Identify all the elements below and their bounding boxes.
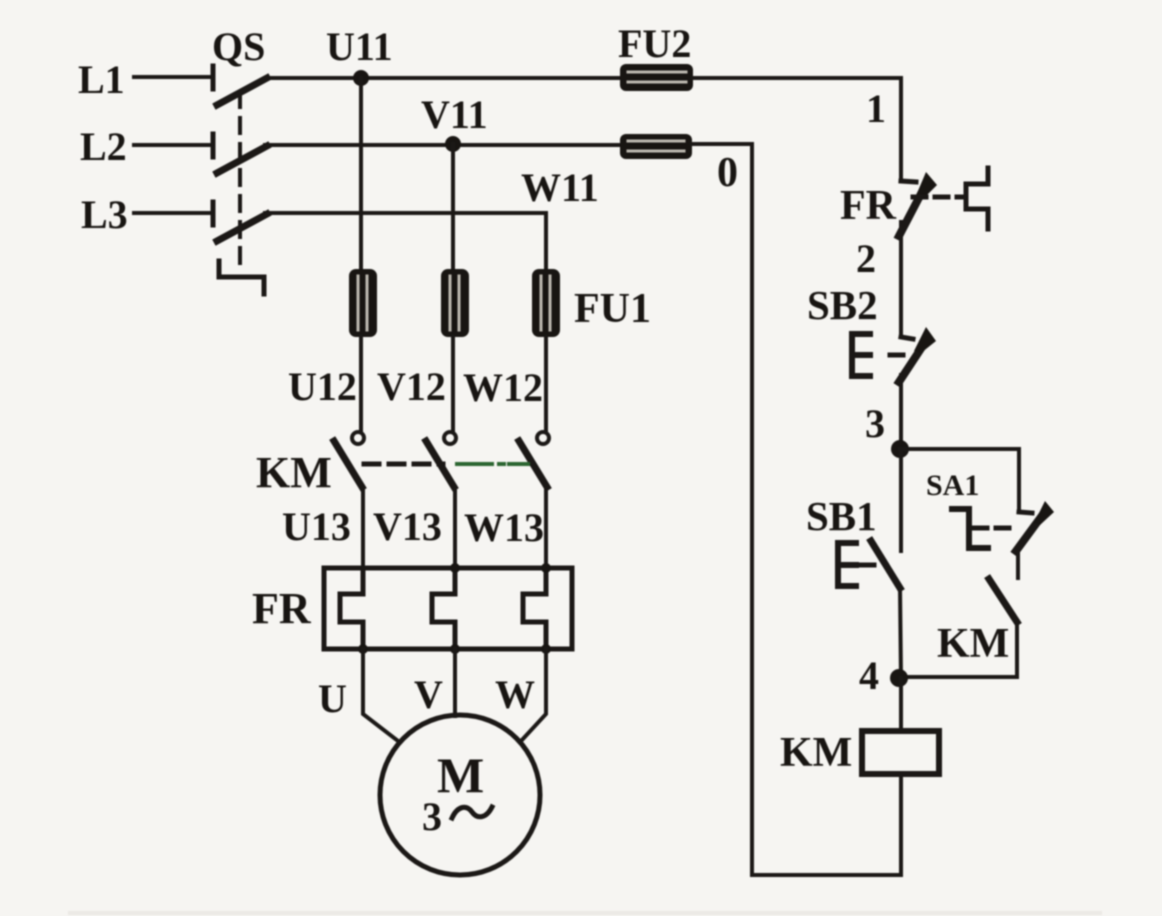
svg-text:W12: W12: [463, 365, 543, 410]
wire node 4 to coil: [899, 678, 903, 731]
svg-text:W13: W13: [464, 505, 544, 550]
thermal relay FR label: [252, 584, 312, 633]
fuse FU1 W stripes: [541, 276, 550, 330]
wire SA1 to KM aux: [1016, 551, 1020, 578]
fuse FU0 body: [620, 134, 692, 159]
wire coil to bottom rail: [754, 774, 901, 875]
node V11 label: [421, 92, 488, 137]
thermal relay FR junction dots: [358, 563, 551, 654]
switch QS handle: [219, 261, 264, 294]
wire SB1 to node 4: [900, 588, 901, 678]
pushbutton SB2 contact: [899, 337, 922, 382]
fuse FU2 stripes: [628, 72, 686, 82]
node W13 label: [464, 505, 544, 550]
relay contact FR NC: [899, 181, 923, 236]
pushbutton SB1 label: [806, 493, 877, 539]
node U11 junction dot: [353, 70, 369, 86]
contactor KM pole W terminal: [537, 432, 549, 444]
node 1 label: [866, 86, 886, 131]
switch QS pole 3 blade: [217, 214, 267, 241]
fuse FU1 label: [574, 286, 651, 332]
node 4 junction dot: [890, 669, 908, 687]
contactor KM linkage dashed: [364, 462, 443, 467]
svg-text:0: 0: [717, 150, 738, 196]
wire L1 to FU2: [265, 76, 620, 80]
selector SA1 arrow: [1034, 501, 1054, 525]
node 4 label: [859, 653, 879, 698]
fuse FU2 body: [620, 64, 693, 91]
thermal relay FR heater U: [340, 568, 363, 649]
fuse FU2 label: [618, 21, 691, 66]
thermal element FR hook: [966, 168, 988, 229]
wire FU2 to control corner: [693, 78, 901, 180]
pushbutton SB2 arrow: [914, 327, 936, 353]
node L3: [81, 192, 128, 237]
scan smear bottom: [70, 911, 1100, 915]
switch QS pole 2 fixed contact: [211, 134, 216, 157]
coil KM label: [780, 730, 852, 776]
fuse FU1 V body: [441, 269, 469, 337]
selector SA1 contact: [1016, 512, 1041, 551]
pushbutton SB2 actuator: [852, 334, 870, 376]
wire U13: [361, 487, 365, 568]
svg-text:U11: U11: [326, 24, 393, 69]
svg-text:V11: V11: [421, 92, 488, 137]
svg-text:V: V: [414, 672, 443, 717]
svg-text:U: U: [318, 676, 347, 721]
wire SB2 to node 3: [899, 375, 903, 449]
relay contact FR dashed link: [913, 195, 962, 200]
wire L1 input: [134, 75, 210, 79]
wire KM aux to node 4: [899, 622, 1017, 677]
thermal relay FR heater W: [523, 568, 546, 649]
svg-text:2: 2: [856, 236, 876, 281]
wire SB1 top: [899, 449, 903, 551]
fuse FU1 U body: [349, 269, 377, 337]
node 3 label: [865, 401, 885, 446]
wire U11 drop: [359, 78, 363, 269]
pushbutton SB2 label: [807, 282, 878, 328]
contactor KM pole V terminal: [444, 432, 456, 444]
switch QS linkage dashed: [238, 92, 242, 266]
node 0 label: [717, 150, 738, 196]
svg-text:V12: V12: [377, 364, 446, 409]
svg-text:FR: FR: [252, 584, 312, 633]
contactor KM pole U terminal: [352, 432, 364, 444]
svg-text:FU1: FU1: [574, 286, 651, 332]
motor 3-phase label: [422, 794, 442, 839]
pushbutton SB1 contact blade: [871, 541, 900, 588]
contactor KM label: [256, 448, 332, 497]
fuse FU1 W body: [532, 269, 560, 337]
relay contact FR arrow: [915, 172, 937, 200]
selector SA1 actuator: [952, 509, 988, 548]
contactor KM pole W blade: [519, 441, 547, 487]
wire U12: [359, 337, 363, 430]
svg-text:SB1: SB1: [806, 493, 877, 539]
motor M circle: [380, 715, 540, 875]
switch QS pole 1 fixed contact: [211, 66, 216, 89]
node W label: [495, 672, 535, 717]
svg-text:QS: QS: [212, 24, 265, 69]
selector SA1 dashed link: [974, 526, 1012, 531]
switch QS label: [212, 24, 265, 69]
thermal relay FR heater V: [432, 568, 455, 649]
node V11 junction dot: [445, 136, 461, 152]
svg-text:KM: KM: [256, 448, 332, 497]
contactor KM pole U blade: [334, 441, 362, 487]
switch QS pole 2 blade: [217, 146, 267, 173]
node U11 label: [326, 24, 393, 69]
wire L3 input: [134, 211, 210, 215]
svg-text:4: 4: [859, 653, 879, 698]
svg-text:KM: KM: [937, 621, 1009, 667]
wire node 3 to SA1 branch: [900, 449, 1019, 512]
node V label: [414, 672, 443, 717]
svg-text:L2: L2: [80, 124, 127, 169]
fuse FU0 stripes: [628, 141, 684, 151]
svg-text:SB2: SB2: [807, 282, 878, 328]
pushbutton SB1 dashed link: [860, 563, 874, 568]
wire L2 input: [134, 143, 210, 147]
wire V to motor: [453, 649, 457, 716]
wire V13: [453, 487, 457, 568]
node V13 label: [373, 504, 442, 549]
switch QS pole 1 blade: [217, 78, 267, 105]
wire L2 to fuse: [265, 143, 620, 147]
motor M label: [437, 747, 484, 803]
wire fuse to 0 corner: [692, 144, 752, 875]
svg-text:W11: W11: [521, 165, 599, 210]
node W11 label: [521, 165, 599, 210]
node 2 label: [856, 236, 876, 281]
node U12 label: [288, 364, 357, 409]
svg-text:FR: FR: [840, 183, 897, 229]
pushbutton SB1 actuator: [838, 543, 856, 586]
wire V11 drop: [451, 144, 455, 269]
svg-text:M: M: [437, 747, 484, 803]
svg-text:KM: KM: [780, 730, 852, 776]
node U label: [318, 676, 347, 721]
node U13 label: [282, 504, 351, 549]
contactor KM aux contact blade: [989, 579, 1017, 622]
wire V12: [451, 337, 455, 430]
selector SA1 label: [926, 469, 979, 502]
svg-text:V13: V13: [373, 504, 442, 549]
node L1: [78, 57, 125, 102]
svg-text:L1: L1: [78, 57, 125, 102]
fuse FU1 U stripes: [358, 276, 367, 330]
switch QS pole 3 fixed contact: [211, 202, 216, 225]
node 3 junction dot: [891, 440, 909, 458]
node L2: [80, 124, 127, 169]
motor tilde: [452, 807, 492, 818]
contactor KM linkage dashed green: [457, 462, 528, 466]
svg-text:L3: L3: [81, 192, 128, 237]
wire W12: [544, 337, 548, 430]
svg-text:U13: U13: [282, 504, 351, 549]
wire W13: [544, 487, 548, 568]
thermal relay FR box: [324, 568, 572, 649]
svg-text:U12: U12: [288, 364, 357, 409]
fuse FU1 V stripes: [450, 276, 459, 330]
svg-text:3: 3: [865, 401, 885, 446]
coil KM body: [862, 731, 939, 774]
contactor KM aux label: [937, 621, 1009, 667]
wire W to motor: [521, 649, 546, 741]
svg-text:1: 1: [866, 86, 886, 131]
node W12 label: [463, 365, 543, 410]
relay contact FR label: [840, 183, 897, 229]
node V12 label: [377, 364, 446, 409]
wire L3 to W11 corner: [265, 213, 546, 269]
wire U to motor: [363, 649, 398, 741]
svg-text:FU2: FU2: [618, 21, 691, 66]
pushbutton SB2 dashed link: [890, 353, 903, 358]
svg-text:W: W: [495, 672, 535, 717]
svg-text:SA1: SA1: [926, 469, 979, 502]
svg-text:3: 3: [422, 794, 442, 839]
contactor KM pole V blade: [426, 441, 454, 487]
wire FR to SB2: [899, 222, 903, 334]
